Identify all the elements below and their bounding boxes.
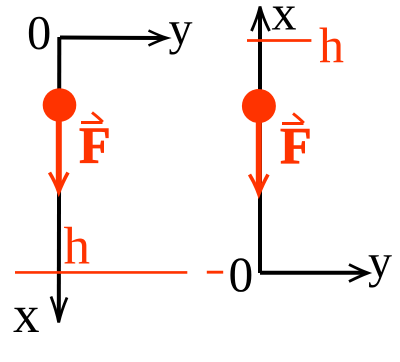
- h level line (left): [15, 271, 187, 274]
- svg-text:0: 0: [229, 247, 254, 302]
- svg-text:F: F: [79, 118, 111, 175]
- svg-text:x: x: [272, 0, 297, 41]
- vec arrow over F (right): [282, 114, 304, 124]
- zero level dash (right): [207, 271, 223, 274]
- x-axis line (left): [57, 37, 62, 319]
- y-axis arrowhead (left): [149, 31, 168, 46]
- svg-text:0: 0: [27, 7, 51, 60]
- svg-text:x: x: [13, 286, 40, 344]
- x-axis line (right): [258, 11, 262, 273]
- y-axis arrowhead (right): [349, 265, 368, 282]
- svg-text:h: h: [64, 218, 91, 276]
- h level line (right): [247, 39, 311, 42]
- ball (right): [242, 89, 276, 123]
- svg-text:y: y: [368, 236, 392, 289]
- force arrowhead (right): [250, 175, 269, 195]
- x-axis arrowhead (left): [51, 297, 67, 323]
- y-axis line (right): [260, 271, 365, 275]
- force arrow shaft (right): [256, 120, 262, 191]
- svg-text:h: h: [319, 17, 344, 73]
- svg-text:F: F: [280, 118, 312, 175]
- ball (left): [43, 88, 77, 122]
- force arrowhead (left): [50, 173, 69, 193]
- svg-text:y: y: [169, 3, 193, 56]
- vec arrow over F (left): [81, 113, 103, 123]
- force arrow shaft (left): [56, 119, 62, 189]
- x-axis arrowhead (right): [252, 7, 270, 32]
- y-axis line (left): [60, 36, 164, 41]
